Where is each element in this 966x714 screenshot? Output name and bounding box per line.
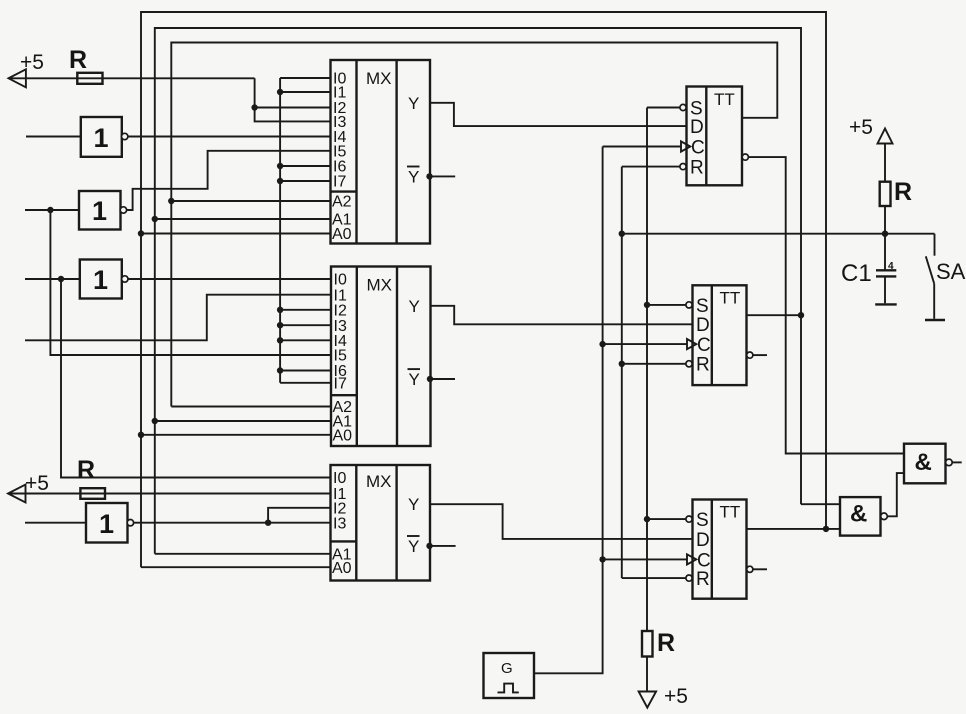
- svg-text:+5: +5: [20, 51, 44, 74]
- node junction B at MX1 I6: [277, 163, 283, 169]
- svg-text:I3: I3: [333, 515, 346, 532]
- AND gate D2 (upper &): [904, 444, 952, 484]
- node junction inverter DD2 input branch: [47, 207, 53, 213]
- svg-text:R: R: [894, 178, 912, 206]
- wire input to inverter DD4: [25, 522, 86, 524]
- resistor R1 (top left): [69, 46, 103, 84]
- node junction C bus at TT2: [599, 341, 605, 347]
- svg-text:D: D: [690, 117, 704, 138]
- multiplexer MX3: [331, 465, 431, 581]
- wire input to inverter DD3: [25, 278, 80, 280]
- wire input to inverter DD2: [25, 209, 79, 211]
- wire R4 to RC node: [884, 206, 886, 234]
- svg-text:R: R: [657, 629, 675, 657]
- wire DD3 input branch down to MX3 I0: [61, 279, 331, 478]
- svg-text:D: D: [696, 315, 710, 336]
- svg-text:I1: I1: [333, 85, 346, 102]
- node junction B at MX2 I4: [277, 337, 283, 343]
- svg-text:G: G: [501, 660, 513, 677]
- inverter DD2 (second "1"): [79, 191, 127, 230]
- node junction B at MX2 I3: [277, 322, 283, 328]
- wire TT2 /Q stub: [753, 354, 767, 356]
- wire MX2 I3: [280, 324, 331, 326]
- svg-text:MX: MX: [367, 276, 393, 295]
- svg-text:1: 1: [99, 509, 114, 539]
- node junction R bus at TT2: [619, 361, 625, 367]
- multiplexer MX1: [331, 60, 431, 244]
- node MX2 /Y output: [427, 376, 433, 382]
- power +5 terminal (top right): [849, 116, 893, 144]
- pin bubble TT1 /Q: [742, 154, 748, 160]
- svg-text:R: R: [69, 46, 87, 74]
- svg-text:MX: MX: [366, 69, 392, 88]
- wire TT2 C input: [603, 343, 687, 345]
- svg-text:A0: A0: [333, 428, 353, 445]
- wire MX1 A1 tap: [155, 218, 331, 220]
- wire DD4 output branch up to MX3 I2: [268, 508, 330, 523]
- svg-text:A0: A0: [332, 226, 352, 243]
- power +5 terminal (top left): [9, 51, 44, 87]
- svg-text:4: 4: [888, 261, 894, 272]
- svg-text:Y: Y: [408, 495, 419, 514]
- wire MX3 A0 tap: [141, 566, 331, 568]
- wire TT2 S input: [647, 304, 686, 306]
- wire inverter DD3 output to MX2 I0: [128, 278, 331, 280]
- svg-text:R: R: [77, 456, 95, 484]
- resistor R2 (bottom left): [77, 456, 105, 499]
- pin dynamic triangle TT1 C: [681, 141, 690, 151]
- ground bar below C1: [875, 303, 897, 305]
- svg-text:+5: +5: [25, 472, 49, 495]
- wire MX1 /Y stub: [429, 175, 455, 177]
- inverter DD1 (top "1"): [81, 117, 128, 157]
- wire AND D1 output to AND D2 input: [887, 473, 904, 516]
- node junction A1 bus at MX2: [152, 418, 158, 424]
- svg-text:I0: I0: [334, 272, 347, 289]
- svg-text:I5: I5: [334, 348, 347, 365]
- pin bubble TT1 R: [680, 164, 686, 170]
- wire TT3 Q output to AND gate D1 input: [747, 528, 841, 530]
- wire TT3 S input: [647, 518, 686, 520]
- inverter DD3 (third "1"): [80, 260, 128, 299]
- wire MX1 I1: [280, 91, 330, 93]
- switch SA: [925, 234, 966, 320]
- svg-text:I0: I0: [333, 470, 346, 487]
- wire MX1 I6: [280, 165, 330, 167]
- wire inverter DD1 output to MX1 I4: [128, 136, 331, 138]
- wire C bus (clock from G): [534, 147, 603, 674]
- wire A1 vertical to AND D1 upper input: [801, 503, 840, 505]
- multiplexer MX2: [331, 267, 431, 447]
- node junction B at MX1 I7: [277, 178, 283, 184]
- pin bubble TT2 /Q: [747, 352, 753, 358]
- wire bus B vertical: [279, 78, 281, 383]
- wire MX2 Y output to TT2 D: [431, 306, 693, 325]
- svg-text:+5: +5: [849, 116, 873, 139]
- svg-text:R: R: [696, 569, 710, 590]
- wire TT3 /Q stub: [753, 568, 767, 570]
- wire net A0 feedback (TT3 Q to A0 bus, outer loop): [141, 12, 826, 567]
- svg-text:1: 1: [92, 196, 107, 226]
- svg-text:S: S: [696, 296, 709, 317]
- svg-text:&: &: [915, 449, 932, 476]
- svg-text:I7: I7: [333, 174, 346, 191]
- node MX3 /Y output: [426, 543, 432, 549]
- node junction B at MX2 I6: [277, 367, 283, 373]
- wire R3 to +5: [646, 657, 648, 692]
- wire TT2 R input: [622, 363, 686, 365]
- svg-text:&: &: [850, 501, 867, 528]
- wire MX2 I6: [280, 370, 331, 372]
- wire MX2 A1 tap: [155, 420, 331, 422]
- inverter DD4 (bottom "1"): [86, 503, 134, 543]
- wire +5 to resistor R4: [884, 144, 886, 182]
- wire input to inverter DD1: [26, 136, 81, 138]
- svg-text:MX: MX: [366, 472, 392, 491]
- wire TT3 R input: [622, 577, 686, 579]
- svg-text:TT: TT: [714, 90, 735, 109]
- flip-flop TT1: [687, 87, 743, 186]
- wire inverter DD4 output to MX3 I3: [133, 522, 330, 524]
- resistor R3 (bottom, S bus): [642, 629, 675, 657]
- svg-text:R: R: [696, 355, 710, 376]
- AND gate D1 (lower &): [840, 497, 887, 535]
- svg-text:Y: Y: [409, 297, 420, 316]
- wire MX2 I2: [280, 309, 331, 311]
- node junction R bus to RC wire: [619, 231, 625, 237]
- svg-text:D: D: [696, 530, 710, 551]
- pin dynamic triangle TT3 C: [687, 554, 696, 564]
- wire MX1 I2 branch: [255, 107, 331, 109]
- pin bubble TT3 R: [686, 575, 692, 581]
- svg-text:I7: I7: [334, 376, 347, 393]
- pin bubble TT2 R: [686, 361, 692, 367]
- wire inverter DD2 output step up to MX1 I5: [126, 151, 330, 210]
- pin bubble TT3 S: [686, 516, 692, 522]
- wire reset net to RC node: [622, 233, 935, 235]
- wire net A2 feedback (TT1 Q to A2 bus, inner loop): [171, 43, 777, 407]
- svg-text:Y: Y: [409, 370, 420, 389]
- svg-text:SA: SA: [936, 259, 966, 284]
- node junction A2 bus at MX1: [168, 198, 174, 204]
- svg-text:A0: A0: [332, 560, 352, 577]
- wire input step to MX2 I1: [25, 295, 331, 341]
- node junction S bus at TT2: [644, 302, 650, 308]
- svg-text:R: R: [690, 158, 704, 179]
- node junction A0 bus at MX2: [138, 432, 144, 438]
- node junction A0 bus at MX1: [138, 230, 144, 236]
- svg-text:TT: TT: [720, 289, 741, 308]
- pin bubble TT1 S: [680, 104, 686, 110]
- wire TT1 /Q to AND gate D2 input: [748, 157, 904, 453]
- svg-text:S: S: [696, 510, 709, 531]
- svg-text:A2: A2: [332, 194, 352, 211]
- wire MX1 A0 tap: [141, 233, 331, 235]
- wire RC node down to capacitor: [884, 234, 886, 270]
- svg-text:C1: C1: [841, 260, 872, 287]
- node junction S bus at TT3: [644, 516, 650, 522]
- node junction DD4 output branch: [265, 520, 271, 526]
- svg-text:C: C: [697, 335, 711, 356]
- svg-text:Y: Y: [408, 94, 419, 113]
- generator G: [484, 653, 535, 698]
- pin bubble TT2 S: [686, 302, 692, 308]
- wire MX2 I4: [280, 339, 331, 341]
- node junction TT2 Q to A1 vertical: [798, 312, 804, 318]
- wire MX3 Y output to TT3 D: [430, 504, 693, 539]
- node junction B at MX2 I2: [277, 307, 283, 313]
- svg-text:1: 1: [93, 265, 108, 295]
- wire +5 to resistor and MX1 I2/I3 step: [9, 78, 331, 121]
- node junction C bus at TT3: [599, 556, 605, 562]
- wire DD2 input branch down to MX2 I5: [50, 210, 331, 355]
- svg-text:TT: TT: [720, 503, 741, 522]
- wire MX3 A1 tap: [155, 553, 331, 555]
- power +5 terminal (bottom): [639, 685, 688, 708]
- svg-text:Y: Y: [408, 167, 419, 186]
- wire MX1 I0: [280, 77, 330, 79]
- pin dynamic triangle TT2 C: [687, 339, 696, 349]
- svg-text:C: C: [691, 137, 705, 158]
- wire +5 through R to MX3 I1: [9, 493, 331, 495]
- wire MX1 A2 tap: [171, 200, 330, 202]
- wire AND D2 output stub: [952, 461, 962, 463]
- node MX1 /Y output: [426, 173, 432, 179]
- svg-text:Y: Y: [408, 537, 419, 556]
- wire capacitor to common bar: [884, 276, 886, 303]
- wire MX3 /Y stub: [429, 545, 456, 547]
- wire MX2 A2 tap: [171, 406, 331, 408]
- power +5 terminal (bottom left): [8, 472, 49, 503]
- node junction inverter DD3 input branch: [58, 276, 64, 282]
- pin bubble TT3 /Q: [747, 566, 753, 572]
- node junction TT3 Q to A0 vertical: [823, 526, 829, 532]
- wire TT2 Q output to A1 feedback: [747, 314, 802, 316]
- svg-text:1: 1: [94, 123, 109, 153]
- wire TT1 C input: [603, 146, 681, 148]
- wire MX2 I7: [280, 382, 331, 384]
- node junction RC: [882, 231, 888, 237]
- wire TT3 C input: [603, 558, 687, 560]
- wire TT1 R input: [622, 166, 680, 168]
- wire net A1 feedback (TT2 Q to A1 bus, middle loop): [155, 28, 801, 554]
- wire MX1 Y output to TT1 D: [430, 103, 687, 126]
- wire MX1 I7: [280, 180, 330, 182]
- wire MX2 A0 tap: [141, 434, 331, 436]
- flip-flop TT3: [693, 500, 747, 599]
- resistor R4 (pull-up, right): [880, 178, 912, 206]
- node junction I2 branch: [251, 104, 257, 110]
- svg-text:+5: +5: [664, 685, 688, 708]
- wire R bus (reset net): [621, 167, 623, 578]
- wire TT1 S input: [647, 107, 680, 109]
- wire MX2 /Y stub: [430, 378, 456, 380]
- capacitor C1: [841, 260, 896, 287]
- node junction B at MX1 I1: [277, 89, 283, 95]
- flip-flop TT2: [693, 285, 747, 385]
- wire S bus (pull-up to +5 via R at bottom): [646, 108, 648, 632]
- node junction A1 bus at MX1: [152, 216, 158, 222]
